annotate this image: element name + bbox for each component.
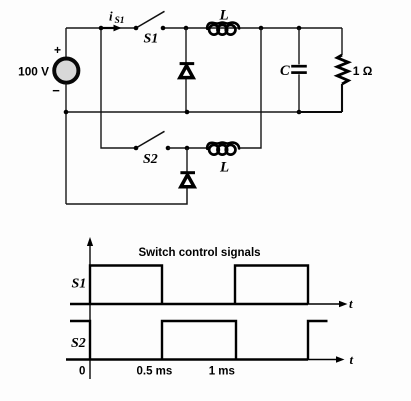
junction node: S2 branch / D2 <box>185 146 190 151</box>
wire: top rail left segment (source corner to S1 left contact) <box>66 27 136 29</box>
inductor L1 coil <box>207 23 239 29</box>
timing axis vertical with arrow <box>89 244 91 379</box>
svg-text:−: − <box>52 83 60 98</box>
junction node: top rail / capacitor <box>297 26 302 31</box>
switch S1 contact dots <box>134 26 139 31</box>
junction node: source / middle rail <box>64 110 69 115</box>
voltage source VS 100 V <box>54 59 78 83</box>
S1 waveform baseline <box>70 303 308 305</box>
resistor R bottom lead <box>341 84 343 112</box>
svg-text:C: C <box>280 63 290 79</box>
S2 waveform pulses <box>70 321 328 360</box>
svg-text:t: t <box>349 296 353 311</box>
svg-text:L: L <box>219 160 229 176</box>
svg-text:0.5 ms: 0.5 ms <box>137 366 173 378</box>
capacitor C top lead <box>298 28 300 64</box>
S1 axis thin extension and arrow <box>308 303 341 305</box>
wire: source bottom lead down to bottom rail corner <box>65 83 67 204</box>
switch S1 blade <box>136 11 165 28</box>
junction node: middle rail / D1 anode <box>185 110 190 115</box>
capacitor C bottom lead <box>298 74 300 112</box>
diode D2 lead <box>186 148 188 173</box>
svg-text:1 Ω: 1 Ω <box>353 64 373 78</box>
svg-text:100 V: 100 V <box>18 65 49 79</box>
svg-text:t: t <box>350 352 354 367</box>
svg-text:Switch control signals: Switch control signals <box>139 247 261 259</box>
svg-text:L: L <box>219 8 229 24</box>
capacitor C plates <box>291 65 307 68</box>
inductor L2 coil <box>207 143 239 149</box>
wire: S2 right contact to inductor L2 <box>168 147 208 149</box>
diode D1 triangle <box>180 66 193 78</box>
resistor R 1ohm top lead <box>341 28 343 55</box>
wire: S2 feed from top rail down to S2 left contact <box>101 28 136 148</box>
wire: bottom rail to diode D2 anode <box>66 187 187 204</box>
junction node: top rail / branch-2 return <box>259 26 264 31</box>
wire: source top lead <box>65 28 67 58</box>
svg-text:S1: S1 <box>115 16 125 26</box>
diode D2 cathode bar <box>180 171 195 174</box>
junction node: top rail / D1 cathode <box>184 26 189 31</box>
svg-text:S2: S2 <box>71 336 86 351</box>
junction node: top rail / S2 feed <box>99 26 104 31</box>
wire: top rail from S1 right contact to top-right corner <box>163 27 342 29</box>
diode D2 triangle <box>181 175 194 187</box>
svg-text:1 ms: 1 ms <box>209 366 235 378</box>
svg-text:+: + <box>54 43 61 57</box>
diode D1 cathode bar <box>180 62 195 65</box>
junction node: middle rail / capacitor <box>297 110 302 115</box>
wire: L2 output up to top rail <box>240 28 261 148</box>
switch S2 blade <box>136 131 165 148</box>
S1 waveform pulses <box>90 266 308 305</box>
wire: middle rail <box>66 111 342 113</box>
svg-text:S2: S2 <box>143 152 158 167</box>
svg-text:S1: S1 <box>72 277 87 292</box>
diode D1 lead <box>185 28 187 112</box>
current arrow i_S1 <box>101 27 114 29</box>
svg-text:0: 0 <box>79 365 85 377</box>
S2 axis thin extension and arrow <box>308 359 338 361</box>
svg-text:S1: S1 <box>144 32 159 47</box>
svg-text:i: i <box>109 9 113 24</box>
S2 waveform baseline <box>66 358 308 360</box>
wire: middle rail right thick segment <box>298 111 342 113</box>
switch S2 contact dots <box>134 146 139 151</box>
resistor R 1ohm zigzag <box>337 55 348 84</box>
